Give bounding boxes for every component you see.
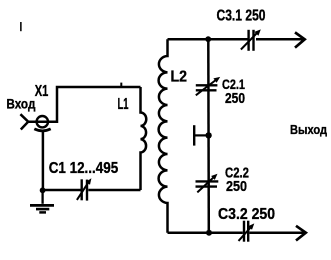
svg-text:250: 250 [226,179,247,195]
svg-text:C2.1: C2.1 [222,77,245,92]
svg-text:X1: X1 [35,83,49,100]
wire tick on L1 top [120,83,122,87]
wire L2 bottom to C3.2 [168,231,243,234]
capacitor C2.1 [196,77,220,95]
wire C2 branch vertical [207,39,210,233]
capacitor C3.2 [239,221,255,242]
inductor L1 [141,87,147,190]
output arrow top [295,32,305,47]
wire L1 bottom to C1 [88,189,140,192]
connector X1 [20,114,50,131]
svg-text:L1: L1 [118,96,129,113]
svg-text:Выход: Выход [290,122,328,137]
ground [30,190,54,212]
svg-text:Вход: Вход [6,95,35,111]
junction node bottom [206,230,212,236]
svg-text:250: 250 [225,91,245,107]
capacitor C2.2 [196,174,219,193]
svg-text:L2: L2 [171,68,188,85]
wire L2 top to C3.1 [168,38,248,41]
wire C3.1 to output top [256,38,303,41]
wire C3.2 to output bottom [250,231,305,234]
junction node mid [205,132,211,138]
wire X1 pin to L1 top [28,87,140,122]
rotor tap of C2 [194,125,206,145]
junction node top [205,36,211,42]
wire C1 to ground node [43,189,81,192]
inductor L2 [159,39,168,232]
svg-text:C1 12...495: C1 12...495 [49,160,119,177]
svg-text:C3.1 250: C3.1 250 [217,8,266,25]
output arrow bottom [296,226,306,241]
wire X1 shield down [42,131,45,190]
svg-text:C3.2 250: C3.2 250 [218,206,275,223]
junction ground node [40,187,46,193]
capacitor C3.1 [241,29,261,50]
capacitor C1 [77,178,92,200]
